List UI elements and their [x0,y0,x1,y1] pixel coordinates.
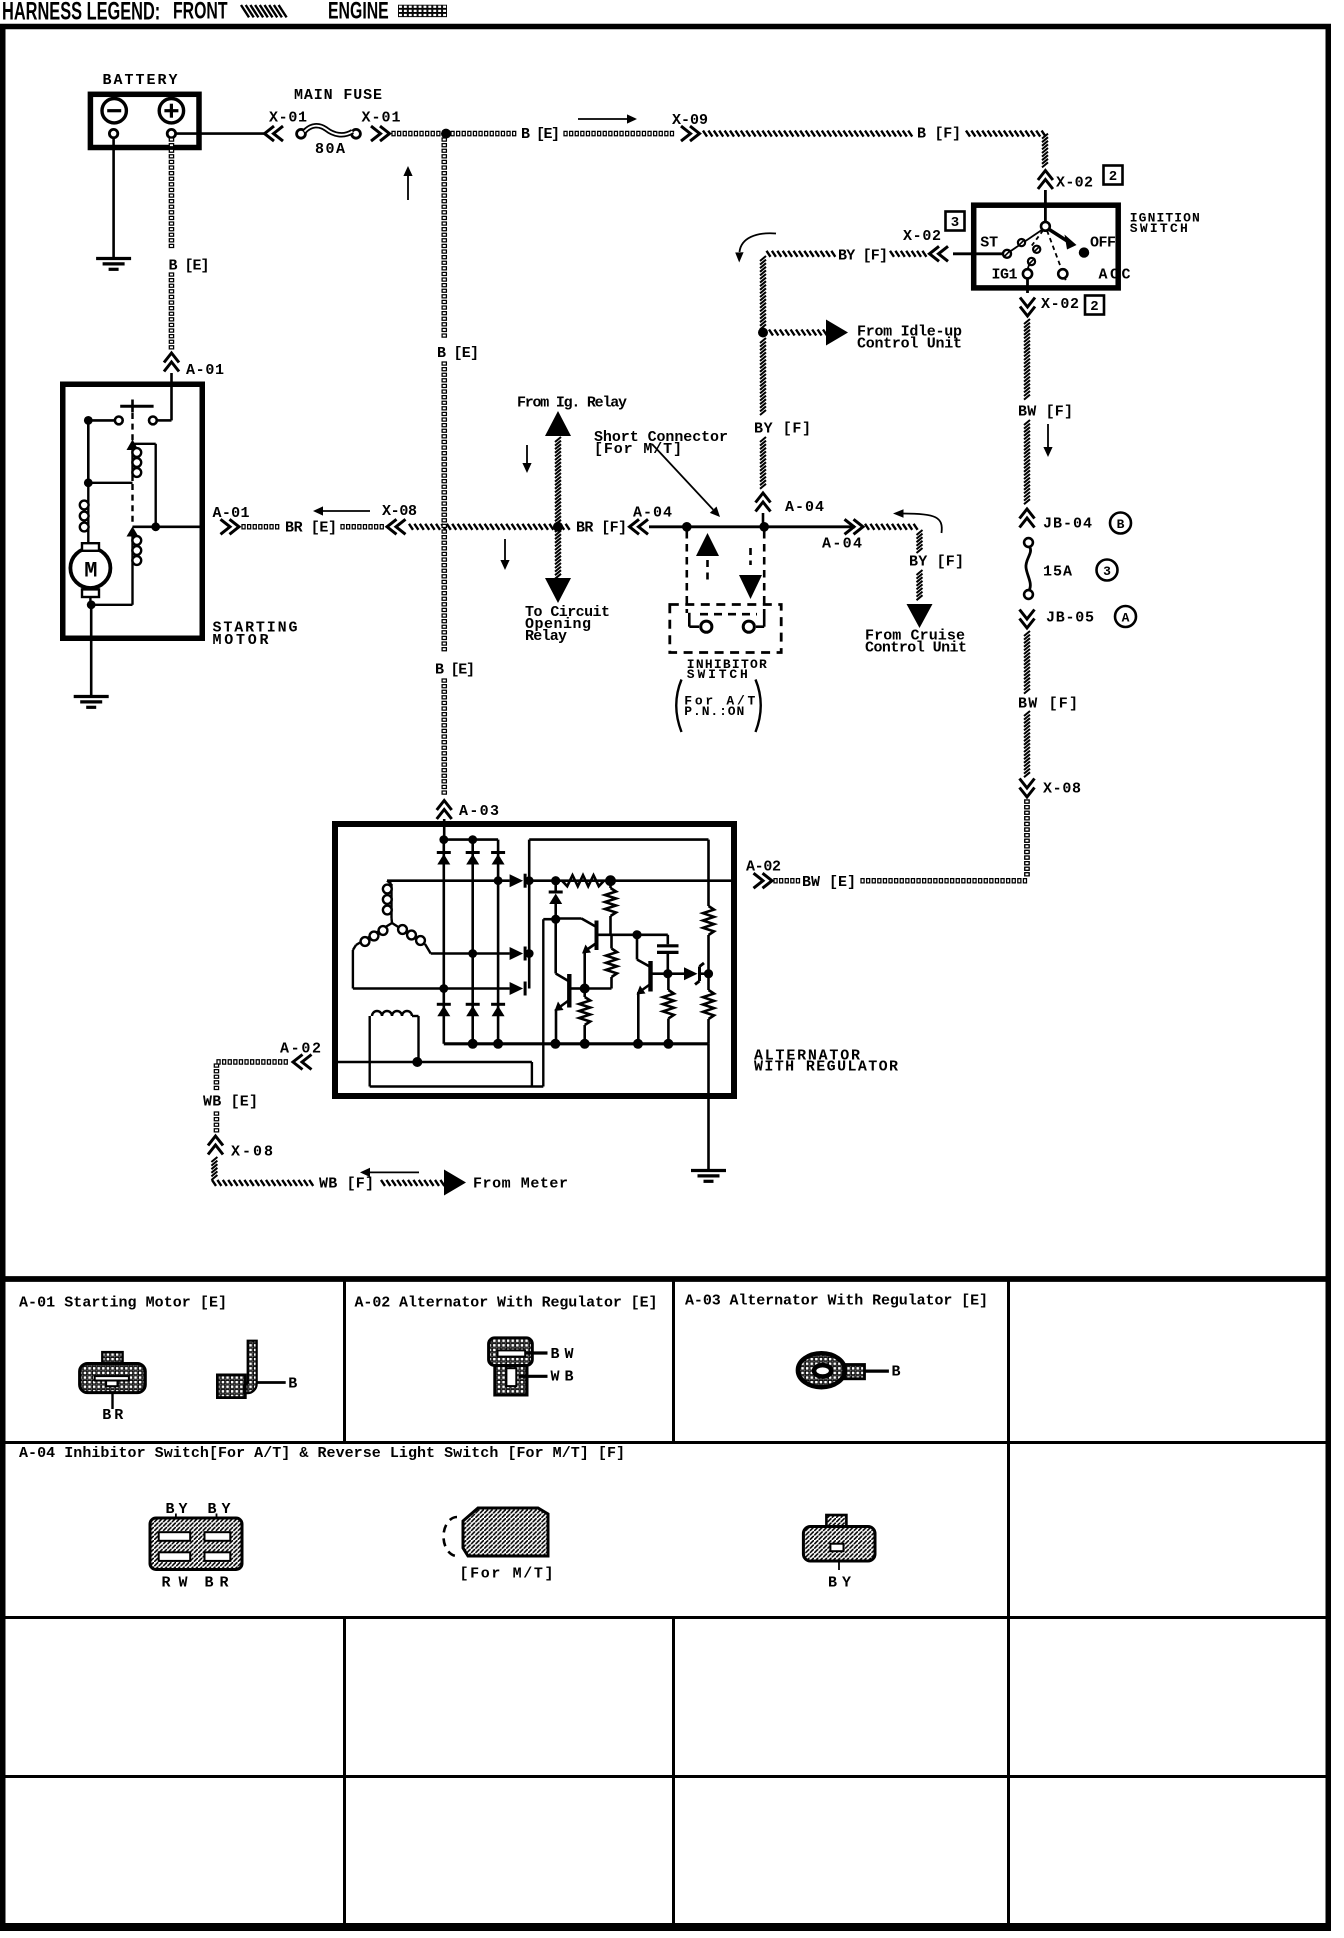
svg-text:A-01 Starting Motor [E]: A-01 Starting Motor [E] [19,1295,227,1312]
svg-text:FRONT: FRONT [173,0,228,24]
connector A-02 left [280,1041,321,1070]
callout circled A [1115,606,1136,627]
inhibitor switch body [670,605,781,653]
svg-text:ENGINE: ENGINE [328,0,389,24]
stator phase 1 wire [387,876,510,885]
short connector callout [594,429,728,517]
ignition contact ST and arm [980,230,1042,258]
svg-text:B: B [892,1364,901,1381]
svg-text:BW [F]: BW [F] [1018,696,1078,713]
connector A-04 vertical entry [756,493,825,526]
wire BW [E] chain right [774,800,1029,891]
ignition switch SW1 [974,205,1200,288]
svg-text:B: B [1117,517,1125,532]
starting motor box [63,384,298,649]
node junction main B [441,129,451,139]
wire BY [F] vertical to inhibitor [754,338,811,489]
svg-text:ACC: ACC [1099,267,1131,284]
connector X-02 top of ignition switch [1038,171,1093,192]
callout box 2 bottom [1085,296,1104,316]
node n1 [551,876,560,885]
svg-text:BW [E]: BW [E] [802,874,856,891]
alternator output line BW [526,879,734,882]
connector X-08 bottom left [208,1136,273,1161]
node inhibitor right tap [759,522,769,532]
node motor bottom [87,597,96,609]
connector A-02 right [746,859,781,889]
wire IG1 down out of switch [1026,278,1029,293]
wire B [F] down to ignition switch [1042,134,1048,168]
svg-text:A-02: A-02 [280,1041,321,1058]
resistor R7 sense lower [703,974,714,1044]
main fuse F1 80A [294,87,382,158]
connector JB-04 [1020,509,1093,533]
wire BY [F] vertical down [760,256,766,329]
inhibitor switch terminals [687,613,767,682]
connector X-08 mid [382,503,417,534]
wire Q2 emitter to Q1 base node [583,952,586,989]
resistor R6 sense upper [703,906,714,974]
trio diode D7a [510,874,525,888]
svg-text:A: A [1122,611,1130,626]
diode D5 [466,1004,480,1016]
svg-text:A-01: A-01 [186,362,224,379]
wire stub to idle-up arrow [769,330,827,336]
flow arrow WB left [360,1168,419,1177]
callout box 2 top [1104,166,1123,186]
svg-text:OFF: OFF [1090,235,1116,252]
inhibitor switch dashed leads [687,531,764,613]
wire battery positive to main fuse [176,132,266,135]
transistor Q3 [637,935,669,1044]
wire A-01 entry to solenoid contact [157,384,172,420]
svg-text:From Ig. Relay: From Ig. Relay [517,395,627,412]
svg-text:B [E]: B [E] [521,126,560,143]
solenoid pull-in coil L2 [127,527,142,573]
svg-text:X-01: X-01 [362,110,401,127]
rectifier bottom bus [444,1039,709,1049]
ignition switch arm to OFF [1049,229,1077,250]
wire BR [E] chain [242,520,383,537]
field coil L4 [370,1011,419,1087]
svg-text:BATTERY: BATTERY [103,72,178,89]
stator coil A [383,881,392,918]
svg-text:B [E]: B [E] [435,662,475,679]
ignition contact ACC [1047,231,1131,284]
flow arrow up near junction [403,166,412,200]
svg-text:A-04: A-04 [633,505,672,522]
flow arrow down right column [1043,424,1052,457]
svg-text:MAIN FUSE: MAIN FUSE [294,87,382,104]
svg-text:15A: 15A [1043,564,1072,581]
node inhibitor left tap [682,522,692,532]
wire BY [F] from ignition ST [767,248,927,265]
rectifier column 2 [471,840,474,1044]
svg-text:A-03 Alternator With Regulator: A-03 Alternator With Regulator [E] [685,1293,988,1310]
wire starting motor to ground [90,605,93,695]
diode D3 [491,853,505,865]
svg-text:From Meter: From Meter [473,1176,568,1193]
motor field coil L3 [80,483,89,546]
wire B [E] battery to starting motor [169,138,210,349]
svg-text:A-04: A-04 [785,499,824,516]
svg-text:BW [F]: BW [F] [1018,404,1073,421]
regulator base rail [597,930,668,939]
routing arrow curve at BY corner [735,233,776,262]
ground stem alternator [707,1044,710,1169]
wire B entry inside alternator [443,824,446,840]
svg-text:WB [F]: WB [F] [319,1176,374,1193]
connector X-02 left (3) [903,228,948,261]
svg-text:[For M/T]: [For M/T] [460,1566,554,1583]
callout circled 3 [1097,560,1118,581]
flow arrow down mid 1 [522,445,531,473]
svg-text:M: M [84,559,97,584]
stator phase 2 wire [431,949,510,958]
node BR and ig-relay crossing [553,522,563,532]
field coil bottom return [370,919,544,1086]
arrow to circuit opening relay [525,578,610,645]
svg-text:JB-05: JB-05 [1046,610,1094,627]
table cell A-03 title [685,1293,988,1310]
svg-text:A-03: A-03 [459,803,499,820]
wire WB [F] front harness [211,1157,444,1193]
svg-text:Control Unit: Control Unit [857,336,962,353]
svg-text:Control Unit: Control Unit [865,640,967,657]
wire BR output inside box [133,522,205,531]
svg-text:X-08: X-08 [382,503,417,520]
routing arrow curve at cruise [893,509,942,533]
connector pictogram A-04 main [150,1501,242,1592]
wire n3 down to Q1 collector [556,919,570,981]
wire BY [F] to cruise corner [865,524,964,600]
flow arrow X-09 direction [578,114,637,123]
connector pictogram A-04 BY [803,1515,875,1592]
node idle-up tap [758,328,768,338]
connector A-03 [437,801,499,825]
node solenoid left [84,416,115,425]
wire coil top to output branch [134,444,156,525]
svg-text:X-02: X-02 [1056,175,1093,192]
svg-text:HARNESS LEGEND:: HARNESS LEGEND: [2,0,160,25]
inhibitor condition note [676,680,761,733]
table cell A-02 title [355,1295,658,1312]
arrow from idle-up control unit [826,320,962,353]
wire WB [E] chain left [203,1060,287,1132]
wire ig-relay vertical band [555,437,561,579]
svg-text:BY [F]: BY [F] [754,421,811,438]
resistor R5 [663,974,674,1044]
resistor R4 emitter [579,989,590,1044]
wire coil2 bottom to motor node [91,572,132,605]
callout circled B [1110,513,1131,534]
diagram border frame [3,27,1329,1280]
svg-text:B [E]: B [E] [169,258,210,275]
wire BW [F] right column lower [1018,631,1078,777]
svg-text:BR [F]: BR [F] [576,520,627,537]
connector pictogram A-04 short connector [444,1508,554,1583]
connector X-09 [672,112,708,141]
legend engine-harness swatch [399,5,447,16]
legend ENGINE label [328,0,389,24]
wire A-02 lamp line [338,1057,532,1087]
svg-text:A-02 Alternator With Regulator: A-02 Alternator With Regulator [E] [355,1295,658,1312]
trio diode D7b [510,947,525,961]
wire ignition feed to pivot [1044,190,1047,223]
trio bus vertical [525,840,534,989]
table cell A-04 title [19,1445,625,1462]
svg-text:MOTOR: MOTOR [213,632,269,649]
stator center node [390,918,393,923]
regulator sense line top [529,840,708,906]
table cell A-01 title [19,1295,227,1312]
wire BR [F] front harness [409,520,627,537]
ground starting motor [74,697,109,708]
stator phase 3 wire [353,984,510,993]
connector A-04 right [822,519,863,552]
transistor Q2 [556,919,597,954]
svg-text:3: 3 [951,215,959,231]
ignition contact IG1 with lead circle [992,231,1044,284]
wire A-04 solid run to inhibitor [649,525,855,528]
trio diode D7c [510,982,525,996]
svg-text:BY [F]: BY [F] [909,554,964,571]
svg-text:A-04: A-04 [822,536,862,553]
svg-text:P.N.:ON: P.N.:ON [684,704,744,719]
legend FRONT label [173,0,228,24]
svg-text:Relay: Relay [525,628,567,645]
harness legend title [2,0,160,25]
connector table [0,1279,1331,1927]
capacitor C1 [657,935,679,979]
flow arrow X-08 left [313,506,370,515]
diode D4 [437,1004,451,1016]
connector X-01 right [362,110,401,142]
svg-text:ST: ST [980,235,998,252]
callout box 3 [946,212,965,232]
arrow from cruise control unit [865,604,967,657]
connector JB-05 [1020,610,1095,629]
svg-text:[For M/T]: [For M/T] [594,441,682,458]
diode D8 below n1 [549,881,563,918]
connector pictogram A-03 ring terminal [798,1353,901,1387]
svg-text:X-01: X-01 [269,110,307,127]
connector A-01 top [164,353,224,384]
svg-text:B [E]: B [E] [437,345,479,362]
connector X-01 left [265,110,308,142]
flow arrow down mid 2 [500,539,509,570]
svg-text:A-01: A-01 [213,505,250,522]
svg-text:2: 2 [1090,299,1098,315]
arrow from ignition relay [517,395,627,437]
battery B1 [90,72,199,148]
transistor Q1 [555,974,590,1044]
wire B [E] engine harness from fuse to junction [392,131,440,135]
svg-text:BY [F]: BY [F] [838,248,888,265]
connector X-02 bottom of ignition switch [1020,296,1079,316]
connector A-01 right [213,505,250,534]
inhibitor plunger arrow up [696,533,719,584]
svg-text:IG1: IG1 [992,267,1018,284]
resistor R1 [562,875,604,886]
rectifier column 1 [442,840,445,1044]
wire BW [E] chain down to corner [1025,800,1029,876]
wire B [E] vertical chain [435,138,479,794]
ignition contact OFF [1079,235,1116,258]
rectifier column 3 [497,840,500,1044]
ground battery [96,259,131,270]
svg-text:BR [E]: BR [E] [285,520,337,537]
wire B [E] chain right with label [451,126,674,143]
svg-text:X-08: X-08 [231,1144,273,1161]
connector pictogram A-01 BR [80,1352,146,1424]
rectifier top bus [439,835,498,844]
stator coil C [392,923,431,954]
wire battery negative to ground [112,138,115,257]
connector pictogram A-02 [489,1338,574,1395]
alternator with regulator box [335,824,898,1096]
wire BW [F] right column upper [1018,319,1073,504]
svg-text:X-02: X-02 [1041,296,1079,313]
solenoid plunger dashed link [131,413,133,441]
svg-text:A-04 Inhibitor Switch[For A/T]: A-04 Inhibitor Switch[For A/T] & Reverse… [19,1445,625,1462]
svg-text:A-02: A-02 [746,859,781,876]
fuse 15A in junction block [1024,538,1072,599]
node n3 [551,915,560,924]
inhibitor plunger arrow down [739,548,762,599]
diode D1 [437,853,451,865]
connector X-08 right column [1020,779,1082,798]
svg-text:WB [E]: WB [E] [203,1094,258,1111]
solenoid plunger dashed link 2 [131,484,133,526]
svg-text:3: 3 [1103,564,1111,579]
svg-text:B: B [288,1376,297,1393]
svg-text:B [F]: B [F] [917,126,961,143]
svg-text:JB-04: JB-04 [1043,516,1092,533]
svg-text:WITH REGULATOR: WITH REGULATOR [754,1059,898,1076]
diode D6 [491,1004,505,1016]
svg-text:X-02: X-02 [903,228,941,245]
wire n3 to field line [543,918,555,921]
zener diode ZD1 [668,963,713,985]
solenoid hold-in coil L1 [127,440,142,482]
resistor R2 [605,881,616,935]
ground alternator [691,1171,726,1182]
ignition switch rotor pivot [1041,222,1050,231]
stator coil B [353,923,392,989]
resistor R3 [588,935,617,989]
svg-text:80A: 80A [315,141,345,158]
wire ST output to left [953,252,1003,255]
motor M1 [70,543,110,597]
svg-text:2: 2 [1109,169,1117,185]
node n2 [605,875,616,886]
connector A-04 left [630,505,673,535]
connector pictogram A-01 B terminal [217,1341,297,1398]
wire left branch to coil bottom [84,420,133,487]
legend front-harness swatch [241,5,287,17]
svg-text:X-08: X-08 [1043,781,1081,798]
arrow from meter [444,1170,568,1196]
wire B [F] front harness top [703,126,1046,143]
diode D2 [466,853,480,865]
solenoid contacts [115,400,157,425]
